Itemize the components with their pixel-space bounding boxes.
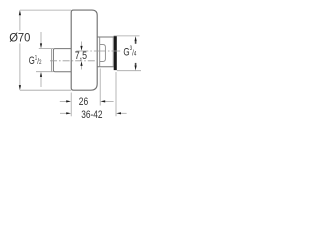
- dim G3/4 upper arrow: [135, 36, 137, 41]
- dim O70 dimension line: [19, 14, 21, 31]
- stub thread line: [51, 49, 53, 72]
- dim 36-42 right extension line: [115, 72, 117, 116]
- collar top edge: [97, 36, 114, 38]
- collar bottom edge: [97, 66, 114, 68]
- centerline left (wall port axis): [50, 60, 97, 62]
- dim 26 right extension line: [99, 69, 101, 106]
- svg-text:26: 26: [79, 96, 88, 108]
- dim 7,5 lower arrow: [81, 66, 83, 70]
- collar right edge: [112, 37, 114, 67]
- dim G3/4 upper extension line: [114, 35, 140, 37]
- svg-text:7,5: 7,5: [75, 50, 88, 62]
- G3/4 thread band (black): [114, 36, 117, 70]
- dim 26 left arrow: [60, 100, 68, 102]
- dim G1/2 lower extension line: [36, 71, 53, 73]
- dim G3/4 lower arrow: [135, 66, 137, 71]
- nut detail: [100, 45, 106, 62]
- dim O70 top extension line: [20, 9, 71, 11]
- dim 36-42 left arrow: [60, 112, 68, 114]
- dim 36-42 right arrow: [120, 112, 127, 114]
- dim G1/2 upper arrow: [40, 32, 42, 45]
- flange (escutcheon) body outline: [71, 10, 97, 90]
- dim 7,5 upper arrow: [81, 42, 83, 47]
- dim 26 right arrow: [104, 100, 114, 102]
- dim G1/2 upper extension line: [39, 48, 54, 50]
- dim O70 arrow down: [19, 85, 21, 90]
- dim O70 arrow up: [19, 10, 21, 15]
- svg-text:Ø70: Ø70: [9, 32, 30, 44]
- svg-text:36-42: 36-42: [81, 109, 102, 121]
- G1/2 inlet stub outline: [53, 49, 71, 72]
- dim G3/4 lower extension line: [117, 70, 141, 72]
- collar inner face line: [99, 37, 101, 67]
- dim 26 left extension line: [70, 93, 72, 117]
- centerline right (outlet axis): [76, 50, 120, 52]
- dim G1/2 lower arrow: [40, 76, 42, 87]
- dim O70 bottom extension line: [20, 89, 71, 91]
